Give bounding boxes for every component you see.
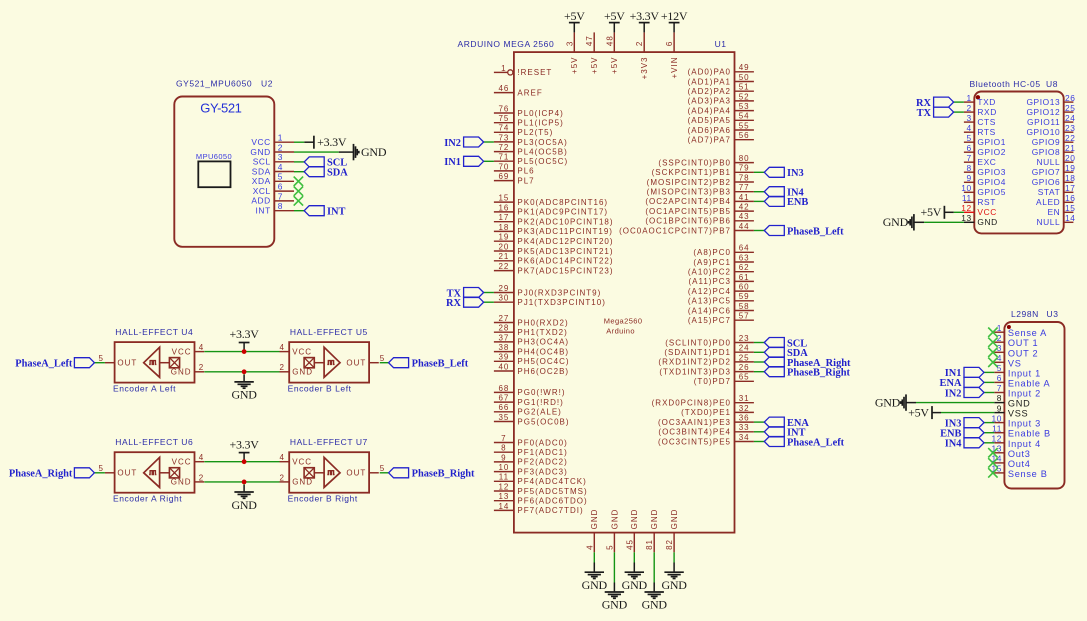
U1 pin 18 PK3(ADC11PCINT19) [494,223,613,236]
net label INT [764,427,805,439]
svg-text:L298N: L298N [1011,309,1039,319]
svg-text:8: 8 [997,393,1002,403]
U3 pin 7 Input 2 [994,383,1041,398]
U1 pin 50 (AD1)PA1 [688,73,754,86]
svg-text:54: 54 [739,112,750,121]
svg-text:PH4(OC4B): PH4(OC4B) [517,347,569,356]
svg-text:GND: GND [292,368,313,377]
svg-text:+5V: +5V [590,57,599,74]
svg-text:Out4: Out4 [1008,459,1031,469]
svg-text:22: 22 [1065,133,1076,143]
svg-text:PL7: PL7 [517,176,534,185]
U1 pin 40 PH6(OC2B) [494,362,569,375]
net label PhaseB_Left [389,358,469,370]
net label PhaseA_Left [764,437,844,449]
svg-text:10: 10 [498,463,509,472]
U3 pin 8 GND [994,393,1030,408]
svg-text:12: 12 [498,482,509,491]
net label IN1 [444,156,483,168]
no-connect U3 pin 4 [988,358,997,367]
svg-text:14: 14 [1065,213,1076,223]
U1 pin 62 (A10)PC2 [688,263,754,276]
no-connect U3 pin 14 [988,458,997,467]
svg-text:PH5(OC4C): PH5(OC4C) [517,357,569,366]
svg-text:VS: VS [1008,358,1022,368]
svg-text:6: 6 [665,41,674,46]
U1 bottom pin 5 GND [605,509,619,553]
U1 bottom pin 45 GND [625,509,639,553]
svg-text:75: 75 [498,114,509,123]
svg-text:(A13)PC5: (A13)PC5 [688,297,731,306]
svg-text:IN3: IN3 [787,168,804,179]
svg-text:20: 20 [1065,153,1076,163]
svg-text:73: 73 [498,133,509,142]
U1 bottom pin 82 GND [665,509,679,553]
U8 title [970,79,1058,89]
net label PhaseB_Right [764,367,850,379]
U1 pin 69 PL7 [494,172,535,185]
U1 pin 43 (OC1BPCINT6)PB6 [645,212,754,225]
wire to net label IN3 [984,422,994,424]
svg-text:(A8)PC0: (A8)PC0 [693,248,731,257]
svg-text:65: 65 [739,373,750,382]
svg-text:29: 29 [498,284,509,293]
svg-text:GND: GND [292,478,313,487]
U4 pin 5 OUT [98,354,137,367]
U1 pin 35 PG5(OC0B) [494,413,570,426]
U1 title [458,39,727,49]
svg-text:(A11)PC3: (A11)PC3 [688,277,731,286]
U3 pin 10 Input 3 [991,413,1040,428]
svg-text:(AD0)PA0: (AD0)PA0 [688,68,731,77]
svg-text:20: 20 [498,242,509,251]
U6 hall element square [160,468,180,478]
svg-text:GND: GND [602,598,628,612]
no-connect U3 pin 15 [988,468,997,477]
svg-text:82: 82 [665,539,674,550]
svg-text:PL6: PL6 [517,167,534,176]
U4 body [115,342,195,383]
U6 pin 4 VCC [172,453,205,466]
svg-text:PhaseB_Right: PhaseB_Right [412,469,475,480]
power +3.3V at U1 top pin x=644 [630,9,660,32]
svg-text:Input 3: Input 3 [1008,419,1041,429]
svg-text:EN: EN [1047,207,1060,217]
U7 amplifier triangle [324,457,340,487]
U8 pin 18 GPIO6 [1032,173,1076,187]
svg-text:+3.3V: +3.3V [317,135,347,149]
net label TX [447,288,484,300]
svg-text:25: 25 [739,353,750,362]
U1 pin 42 (OC1APCINT5)PB5 [645,203,754,216]
wire to net label ENB [754,200,764,202]
U3 pin 2 OUT 1 [994,333,1038,348]
svg-text:GND: GND [1008,399,1031,409]
svg-text:XDA: XDA [252,176,271,186]
U8 polarity dot [976,95,980,99]
svg-text:48: 48 [605,35,614,46]
net label IN2 [444,137,483,149]
svg-text:49: 49 [739,63,750,72]
svg-text:ADD: ADD [251,196,270,206]
net label PhaseB_Right [389,468,475,480]
svg-text:(A15)PC7: (A15)PC7 [688,316,731,325]
no-connect U2 pin 7 [294,196,303,205]
svg-text:Enable B: Enable B [1008,429,1051,439]
U3 pin 15 Sense B [991,464,1047,479]
svg-text:GND: GND [231,498,257,512]
svg-text:PK3(ADC11PCINT19): PK3(ADC11PCINT19) [517,227,613,236]
net label TX [917,107,954,119]
no-connect U3 pin 13 [988,448,997,457]
svg-text:15: 15 [498,194,509,203]
wire to net label PhaseA_Right [94,472,105,474]
U3 pin 13 Out3 [991,444,1030,459]
svg-text:1: 1 [501,64,506,73]
svg-text:53: 53 [739,102,750,111]
svg-text:+5V: +5V [604,9,625,23]
svg-text:PK0(ADC8PCINT16): PK0(ADC8PCINT16) [517,198,608,207]
ground GND at U8 [909,214,914,230]
svg-text:(OC2APCINT4)PB4: (OC2APCINT4)PB4 [645,197,731,206]
svg-text:PF7(ADC7TDI): PF7(ADC7TDI) [517,506,583,515]
svg-text:45: 45 [625,539,634,550]
svg-text:35: 35 [498,413,509,422]
U1 top pin 47 +5V [585,32,599,74]
U1 pin 32 (TXD0)PE1 [681,404,754,417]
wire to net label SCL [754,342,764,344]
svg-text:MPU6050: MPU6050 [196,152,232,161]
svg-text:PL0(ICP4): PL0(ICP4) [517,109,563,118]
svg-text:+5V: +5V [610,57,619,74]
svg-text:PK2(ADC10PCINT18): PK2(ADC10PCINT18) [517,218,613,227]
power +5V at U3 [931,406,933,419]
svg-text:PK4(ADC12PCINT20): PK4(ADC12PCINT20) [517,237,613,246]
svg-text:4: 4 [967,123,972,133]
svg-text:OUT 2: OUT 2 [1008,348,1038,358]
svg-text:VCC: VCC [251,137,270,147]
ground GND below U1 [582,552,608,592]
svg-text:PL1(ICP5): PL1(ICP5) [517,119,563,128]
svg-text:VSS: VSS [1008,409,1028,419]
svg-text:42: 42 [739,203,750,212]
svg-text:RST: RST [977,197,996,207]
wire U3 VSS to +5V [932,412,994,414]
svg-text:TXD: TXD [977,97,996,107]
U8 pin 7 EXC [964,153,997,167]
U1 pin 44 (OC0AOC1CPCINT7)PB7 [619,222,754,235]
svg-text:19: 19 [1065,163,1076,173]
wire U8 RXD to TX [954,111,964,113]
svg-text:PhaseA_Left: PhaseA_Left [15,359,73,370]
svg-text:INT: INT [327,207,346,218]
U1 pin 38 PH4(OC4B) [494,343,569,356]
U6 body [115,452,195,493]
svg-text:GPIO12: GPIO12 [1026,107,1060,117]
svg-text:1: 1 [278,133,283,143]
svg-text:(MISOPCINT3)PB3: (MISOPCINT3)PB3 [647,188,731,197]
svg-text:58: 58 [739,302,750,311]
svg-text:Input 4: Input 4 [1008,439,1041,449]
svg-text:59: 59 [739,292,750,301]
svg-text:(AD4)PA4: (AD4)PA4 [688,106,731,115]
IC U1 ARDUINO MEGA 2560 [458,32,754,552]
U1 pin 74 PL2(T5) [494,124,553,137]
svg-text:PF5(ADC5TMS): PF5(ADC5TMS) [517,487,587,496]
svg-text:VCC: VCC [172,458,192,467]
svg-text:2: 2 [278,142,283,152]
U8 pin 14 NULL [1036,213,1075,227]
wire U2 SCL [294,161,304,163]
svg-text:GND: GND [642,598,668,612]
svg-text:8: 8 [278,201,283,211]
svg-text:GND: GND [883,215,909,229]
svg-text:57: 57 [739,312,750,321]
svg-text:XCL: XCL [253,186,271,196]
wire to net label INT [754,431,764,433]
U8 pin 6 GPIO2 [964,143,1006,157]
svg-text:52: 52 [739,92,750,101]
svg-text:Input 1: Input 1 [1008,368,1041,378]
U1 pin 26 (TXD1INT3)PD3 [659,363,754,376]
svg-text:+3.3V: +3.3V [230,437,260,451]
U1 pin 8 PF1(ADC1) [494,444,568,457]
no-connect U3 pin 2 [988,338,997,347]
svg-text:3: 3 [278,152,283,162]
U5 pin 5 OUT [346,354,385,367]
U1 pin 1 !RESET [494,64,552,77]
svg-text:GPIO6: GPIO6 [1032,177,1061,187]
svg-text:14: 14 [498,502,509,511]
net label IN4 [945,438,984,450]
U3 body [1004,322,1064,489]
svg-text:9: 9 [501,453,506,462]
U8 pin 8 GPIO3 [964,163,1006,177]
svg-text:32: 32 [739,404,750,413]
wire to net label IN1 [484,160,494,162]
wire U8 TXD to RX [954,101,964,103]
svg-text:(TXD1INT3)PD3: (TXD1INT3)PD3 [659,367,731,376]
U1 bottom pin 4 GND [585,509,599,553]
svg-text:38: 38 [498,343,509,352]
net label IN1 [945,367,984,379]
U1 pin 80 (SSPCINT0)PB0 [658,154,753,167]
U1 pin 21 PK6(ADC14PCINT22) [494,252,614,265]
wire GND rail [204,481,279,483]
U1 pin 41 (OC2APCINT4)PB4 [645,193,754,206]
U2 body [174,97,274,247]
svg-text:VCC: VCC [292,458,312,467]
svg-text:PF4(ADC4TCK): PF4(ADC4TCK) [517,477,586,486]
U1 pin 27 PH0(RXD2) [494,314,569,327]
U1 pin 28 PH1(TXD2) [494,324,568,337]
svg-text:5: 5 [967,133,972,143]
wire to net label PhaseB_Left [754,230,764,232]
svg-text:PL3(OC5A): PL3(OC5A) [517,138,567,147]
svg-text:+3.3V: +3.3V [630,9,660,23]
svg-text:9: 9 [967,173,972,183]
U1 pin 30 PJ1(TXD3PCINT10) [494,294,606,307]
svg-text:GND: GND [630,509,639,530]
svg-text:60: 60 [739,283,750,292]
U8 pin 20 NULL [1036,153,1075,167]
net label SDA [304,167,348,179]
U8 pin 26 GPIO13 [1026,93,1075,107]
svg-text:(OC3BINT4)PE4: (OC3BINT4)PE4 [658,428,731,437]
wire U2 INT [294,210,304,212]
net label PhaseA_Left [15,358,94,370]
svg-text:(SDAINT1)PD1: (SDAINT1)PD1 [664,348,731,357]
svg-text:17: 17 [1065,183,1076,193]
svg-text:13: 13 [498,492,509,501]
module U8 Bluetooth HC-05 [961,79,1075,233]
wire U2 VCC to +3.3V [294,141,314,143]
svg-text:GND: GND [171,478,192,487]
U1 pin 12 PF5(ADC5TMS) [494,482,588,495]
U7 body [289,452,369,493]
svg-text:GND: GND [171,368,192,377]
U1 pin 16 PK1(ADC9PCINT17) [494,203,608,216]
svg-text:PF3(ADC3): PF3(ADC3) [517,467,567,476]
U6 amplifier triangle [144,457,160,487]
U1 pin 29 PJ0(RXD3PCINT9) [494,284,601,297]
wire U8 VCC to +5V [944,211,964,213]
U1 pin 52 (AD3)PA3 [688,92,754,105]
net label PhaseB_Left [764,226,844,238]
ground GND below U1 [642,552,668,611]
U1 pin 49 (AD0)PA0 [688,63,754,76]
svg-text:PF0(ADC0): PF0(ADC0) [517,438,567,447]
svg-text:(A14)PC6: (A14)PC6 [688,306,731,315]
power +3.3V rail symbol [230,327,260,351]
U8 pin 22 GPIO9 [1032,133,1076,147]
svg-text:PF2(ADC2): PF2(ADC2) [517,458,567,467]
svg-text:(OC0AOC1CPCINT7)PB7: (OC0AOC1CPCINT7)PB7 [619,226,731,235]
svg-text:39: 39 [498,353,509,362]
U1 pin 58 (A14)PC6 [688,302,754,315]
module U3 L298N [991,309,1064,489]
svg-text:30: 30 [498,294,509,303]
svg-text:5: 5 [605,544,614,549]
svg-text:IN4: IN4 [945,439,962,450]
U1 pin 71 PL5(OC5C) [494,153,568,166]
svg-text:67: 67 [498,394,509,403]
U3 title [1011,309,1058,319]
svg-text:3: 3 [565,41,574,46]
wire VCC rail [204,461,279,463]
U1 pin 60 (A12)PC4 [688,283,754,296]
svg-text:PL5(OC5C): PL5(OC5C) [517,157,568,166]
svg-text:40: 40 [498,362,509,371]
svg-text:PhaseA_Right: PhaseA_Right [9,469,73,480]
svg-text:(RXD0PCIN8)PE0: (RXD0PCIN8)PE0 [652,399,731,408]
svg-text:11: 11 [499,473,509,482]
U1 pin 68 PG0(!WR!) [494,384,566,397]
svg-text:HALL-EFFECT U7: HALL-EFFECT U7 [290,437,368,447]
svg-text:AREF: AREF [517,88,542,97]
svg-text:5: 5 [98,354,103,363]
U4 pulse symbol [149,361,156,365]
svg-text:24: 24 [1065,113,1076,123]
svg-text:78: 78 [739,173,750,182]
svg-text:Bluetooth HC-05: Bluetooth HC-05 [970,79,1041,89]
junction VCC rail [242,349,247,354]
sensor U4 HALL-EFFECT [98,327,204,394]
U7 pin 4 VCC [279,453,312,466]
svg-text:8: 8 [501,444,506,453]
svg-text:1: 1 [967,93,972,103]
U3 polarity dot [1007,325,1011,329]
svg-text:68: 68 [498,384,509,393]
U1 pin 66 PG2(ALE) [494,403,562,416]
svg-text:SCL: SCL [253,157,271,167]
U4 amplifier triangle [144,347,160,377]
U1 pin 22 PK7(ADC15PCINT23) [494,262,614,275]
svg-text:55: 55 [739,121,750,130]
svg-text:PhaseA_Left: PhaseA_Left [787,437,845,448]
U2 chip MPU6050 [196,152,232,187]
svg-text:GND: GND [650,509,659,530]
wire to net label PhaseA_Left [754,441,764,443]
svg-text:PJ1(TXD3PCINT10): PJ1(TXD3PCINT10) [517,298,605,307]
wire to net label ENB [984,432,994,434]
svg-text:Encoder A Left: Encoder A Left [113,383,176,393]
svg-text:GND: GND [875,395,901,409]
svg-text:GND: GND [977,217,997,227]
svg-text:PH6(OC2B): PH6(OC2B) [517,367,569,376]
svg-text:PG2(ALE): PG2(ALE) [517,408,561,417]
svg-text:!RESET: !RESET [517,68,552,77]
U1 pin 57 (A15)PC7 [688,312,754,325]
svg-text:5: 5 [380,354,385,363]
svg-text:4: 4 [585,544,594,549]
U5 pulse symbol [327,361,334,365]
svg-text:U8: U8 [1046,79,1058,89]
U1 pin 79 (SCKPCINT1)PB1 [652,164,754,177]
svg-text:NULL: NULL [1036,217,1060,227]
svg-text:(RXD1INT2)PD2: (RXD1INT2)PD2 [658,358,731,367]
svg-text:IN2: IN2 [444,138,461,149]
U4 pin 2 GND [171,363,205,376]
svg-text:26: 26 [739,363,750,372]
U1 pin 14 PF7(ADC7TDI) [494,502,584,515]
svg-text:11: 11 [962,193,972,203]
svg-text:PK7(ADC15PCINT23): PK7(ADC15PCINT23) [517,266,613,275]
U1 pin 73 PL3(OC5A) [494,133,568,147]
svg-text:(AD2)PA2: (AD2)PA2 [688,87,731,96]
wire to net label PhaseB_Left [380,362,389,364]
U1 pin 70 PL6 [494,162,535,175]
svg-text:+3.3V: +3.3V [230,327,260,341]
svg-text:70: 70 [498,162,509,171]
wire to net label PhaseA_Left [94,362,105,364]
net label SCL [304,157,347,169]
U8 pin 2 RXD [964,103,997,117]
U1 pin 61 (A11)PC3 [688,273,753,286]
wire to net label TX [484,292,494,294]
junction GND rail [242,369,247,374]
power +3.3V rail symbol [230,437,260,461]
svg-text:6: 6 [997,373,1002,383]
svg-text:(OC1APCINT5)PB5: (OC1APCINT5)PB5 [645,207,731,216]
svg-text:4: 4 [199,453,204,462]
U1 pin 64 (A8)PC0 [693,244,754,257]
svg-text:46: 46 [498,84,509,93]
net label PhaseA_Right [764,357,851,369]
U8 pin 5 GPIO1 [964,133,1006,147]
svg-text:+VIN: +VIN [670,57,679,79]
U1 pin 17 PK2(ADC10PCINT18) [494,213,614,226]
